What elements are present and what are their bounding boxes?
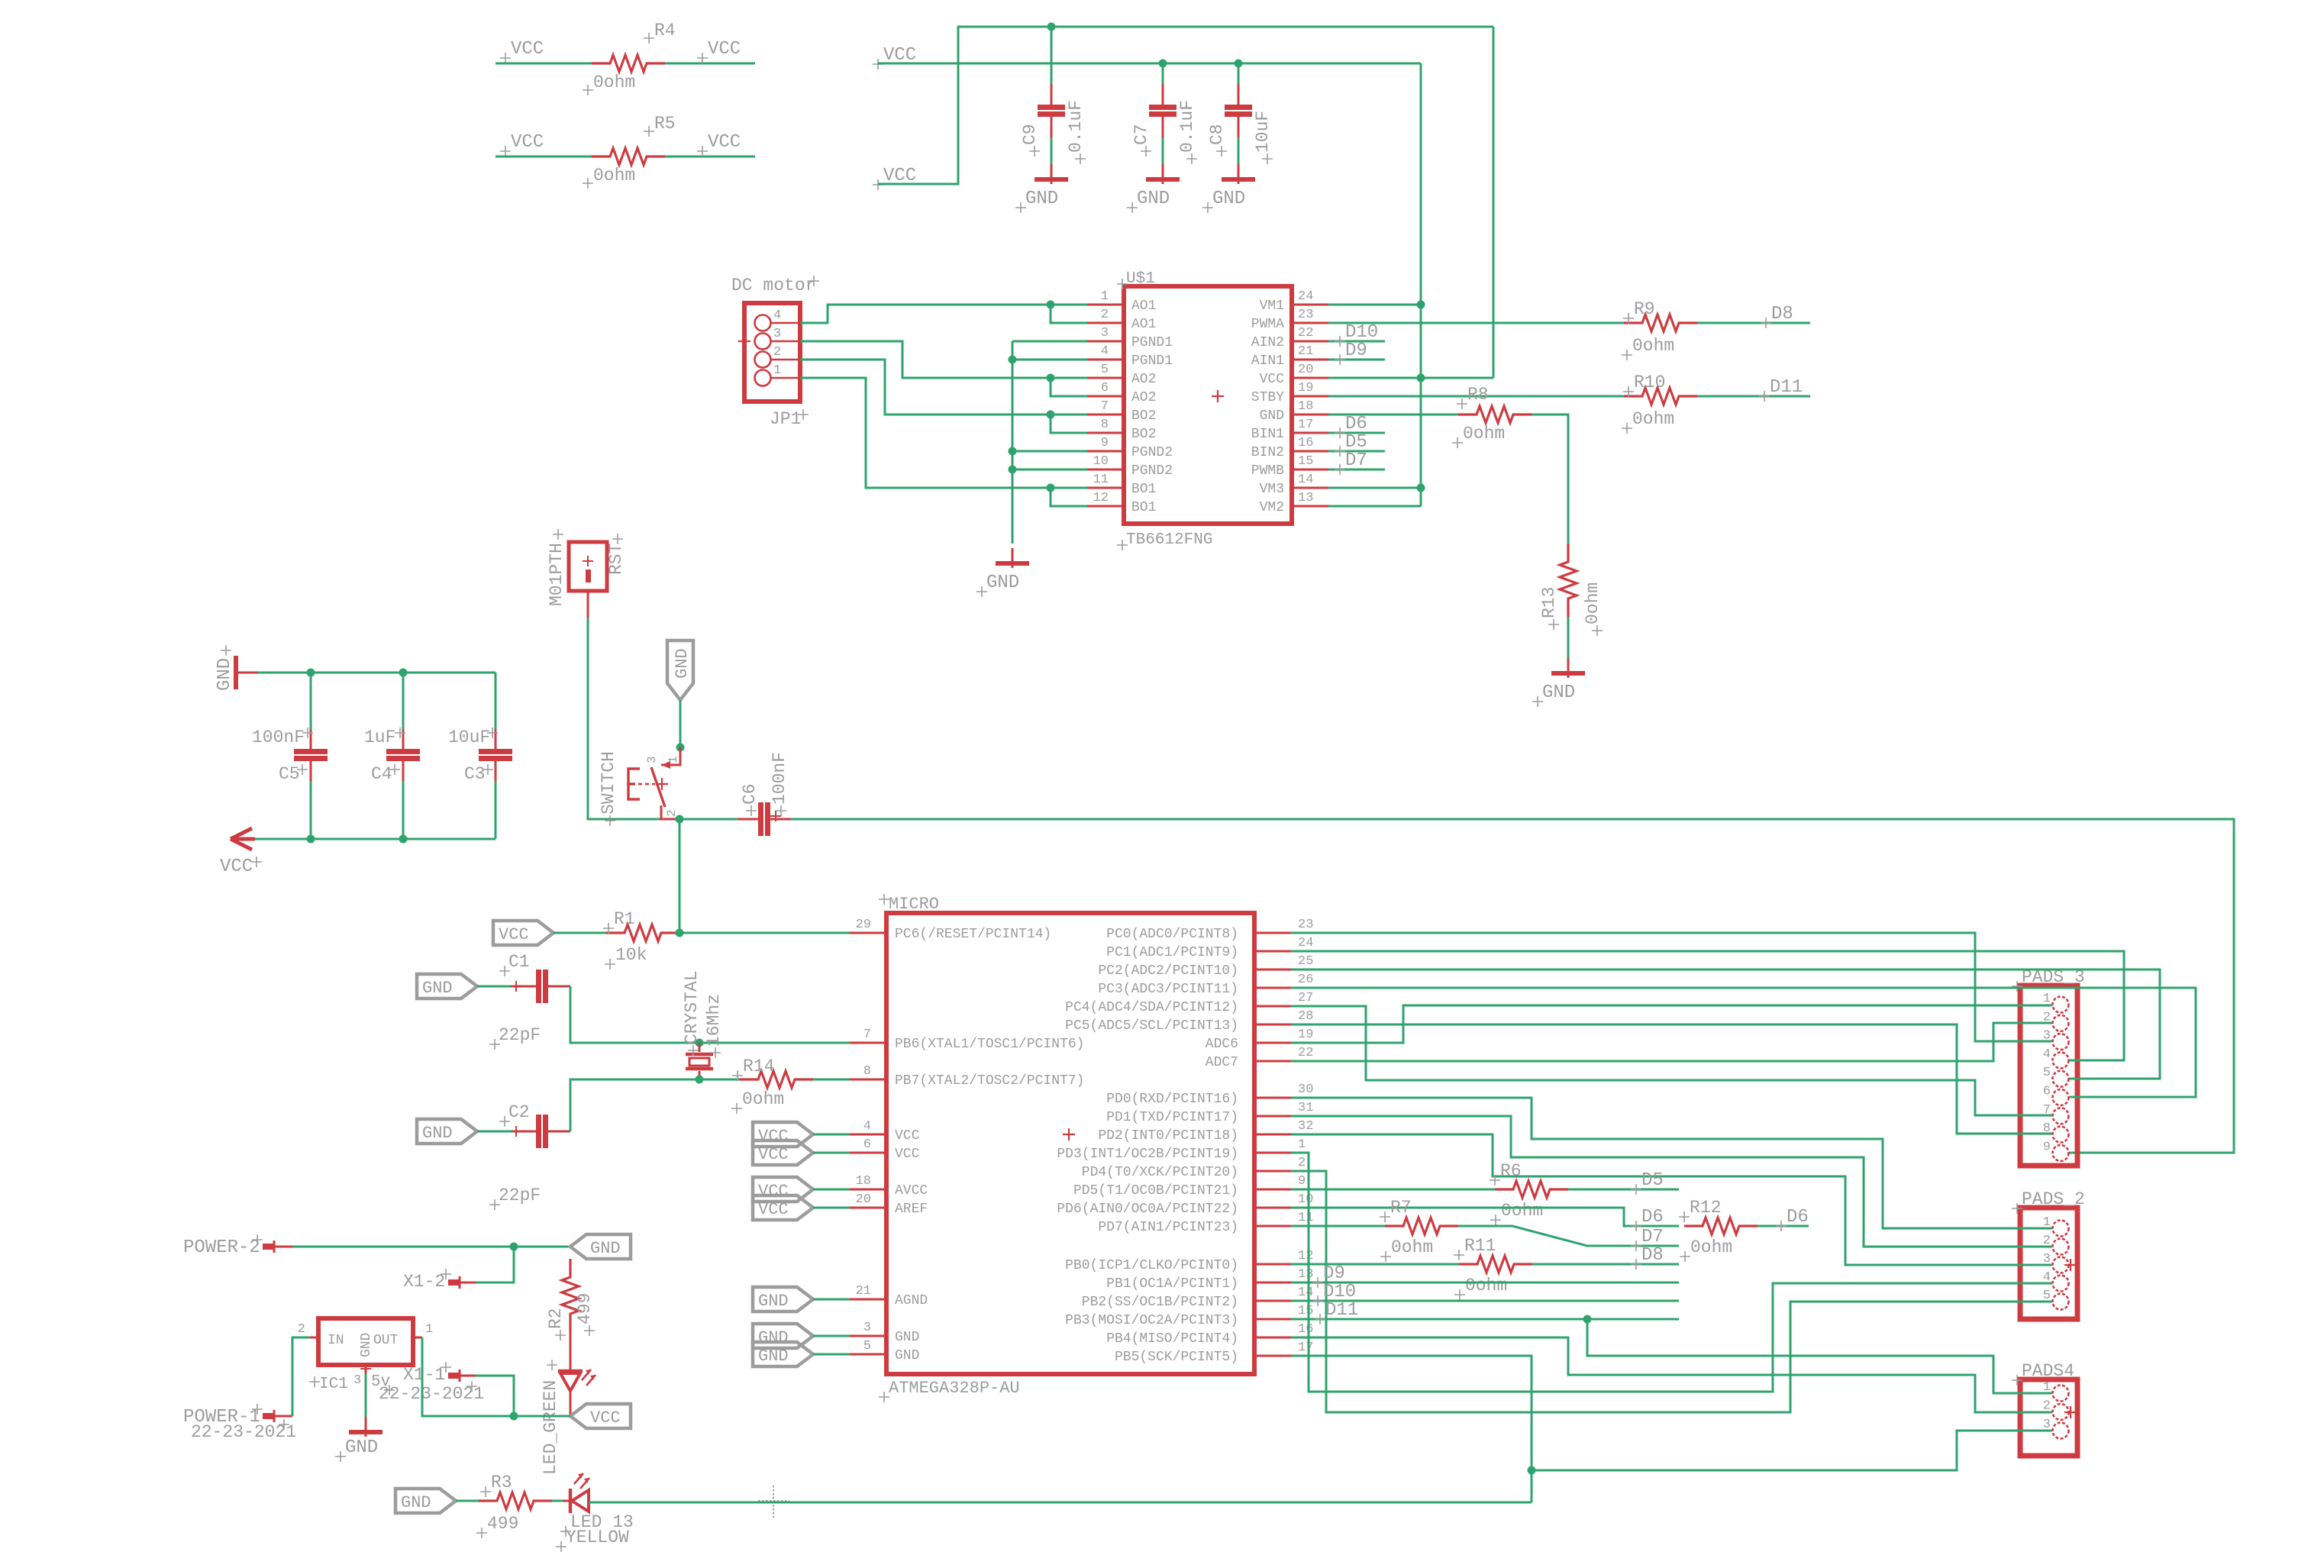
PADS4 pad 2 [2053, 1404, 2069, 1420]
wire pin23 to PADS_3 pad3 [1291, 933, 2052, 1041]
svg-text:10uF: 10uF [1253, 111, 1273, 153]
supply flag GND pin5 [753, 1342, 813, 1366]
PADS_2 pad 4 [2053, 1276, 2069, 1292]
svg-text:23: 23 [1298, 308, 1313, 322]
wire branch to U$1 pin12 [1051, 488, 1087, 506]
svg-text:1: 1 [1298, 1137, 1306, 1152]
svg-text:PB4(MISO/PCINT4): PB4(MISO/PCINT4) [1106, 1331, 1238, 1347]
connector JP1 (DC motor) body [744, 303, 800, 402]
wire branch to U$1 pin6 [1051, 378, 1087, 396]
X1-2 pin stub [448, 1279, 459, 1286]
svg-text:GND: GND [758, 1347, 789, 1366]
svg-text:IC1: IC1 [319, 1376, 348, 1393]
svg-text:YELLOW: YELLOW [566, 1528, 629, 1547]
svg-text:LED_GREEN: LED_GREEN [541, 1380, 560, 1475]
switch origin cross [656, 778, 668, 790]
IC1 pin 1 lead [413, 1337, 422, 1339]
wire POWER-2 to GND flag [292, 1246, 570, 1248]
JP1 pin 1 stub [771, 377, 801, 379]
junction PGND pin4 [1009, 356, 1017, 364]
resistor R8 [1458, 406, 1532, 423]
MICRO pin 32 lead [1254, 1134, 1291, 1136]
MICRO pin 28 lead [1254, 1024, 1291, 1026]
svg-text:14: 14 [1298, 473, 1313, 487]
PADS_3 pad 5 [2053, 1071, 2069, 1087]
svg-text:3: 3 [353, 1373, 361, 1388]
C6 origin cross [770, 811, 781, 821]
svg-text:TB6612FNG: TB6612FNG [1126, 531, 1212, 549]
ground symbol below C7 [1162, 164, 1164, 184]
svg-text:AREF: AREF [895, 1202, 928, 1217]
svg-text:0ohm: 0ohm [593, 73, 635, 92]
junction R1 output [676, 929, 684, 937]
svg-text:PB0(ICP1/CLKO/PCINT0): PB0(ICP1/CLKO/PCINT0) [1065, 1258, 1238, 1273]
svg-text:C5: C5 [279, 764, 300, 784]
switch pin 2 lead [661, 805, 678, 819]
svg-text:29: 29 [856, 918, 871, 932]
LED_GREEN emission arrows [582, 1370, 596, 1386]
svg-text:22pF: 22pF [499, 1025, 541, 1045]
svg-text:X1-1: X1-1 [403, 1365, 445, 1385]
LED LED_GREEN [558, 1370, 583, 1373]
wire VCC rail down right side x=1861 [1420, 63, 1422, 506]
PADS_3 pad 6 [2053, 1089, 2069, 1105]
svg-text:PADS4: PADS4 [2022, 1361, 2074, 1381]
svg-text:6: 6 [1101, 381, 1109, 395]
svg-text:R5: R5 [654, 114, 676, 134]
JP1 pad 4 [755, 315, 771, 331]
svg-text:GND: GND [422, 979, 453, 998]
junction C4 bottom [399, 835, 408, 844]
svg-text:PB2(SS/OC1B/PCINT2): PB2(SS/OC1B/PCINT2) [1082, 1295, 1238, 1310]
capacitor C3 [495, 729, 497, 749]
svg-text:24: 24 [1298, 936, 1313, 950]
svg-text:BO2: BO2 [1131, 408, 1156, 424]
svg-text:R1: R1 [614, 909, 635, 929]
supply flag GND above switch [667, 640, 693, 700]
wire U$1 pin21 AIN1 stub D9 [1328, 359, 1385, 361]
U$1 pin 8 lead [1087, 432, 1124, 434]
svg-text:PGND2: PGND2 [1131, 445, 1173, 460]
wire R6 to D5 [1568, 1189, 1679, 1191]
IC1 pin 2 lead [310, 1337, 318, 1339]
svg-text:GND: GND [359, 1333, 374, 1357]
wire U$1 pin14 VM3 [1328, 487, 1421, 489]
wire POWER-1 to IC1 IN [292, 1337, 310, 1416]
supply flag VCC pin6 [753, 1141, 813, 1165]
U$1 pin 9 lead [1087, 450, 1124, 453]
MICRO pin 3 lead [850, 1335, 886, 1337]
svg-text:100nF: 100nF [252, 728, 305, 747]
svg-text:VCC: VCC [758, 1200, 789, 1219]
svg-text:2: 2 [665, 809, 679, 817]
PADS_2 pad 3 [2053, 1257, 2069, 1273]
svg-text:GND: GND [215, 658, 235, 691]
svg-text:4: 4 [773, 308, 781, 323]
svg-text:D6: D6 [1641, 1207, 1664, 1228]
svg-text:PD4(T0/XCK/PCINT20): PD4(T0/XCK/PCINT20) [1082, 1165, 1238, 1180]
svg-text:AGND: AGND [895, 1293, 928, 1308]
wire U$1 pin24 VM1 to VCC rail [1328, 304, 1421, 306]
MICRO pin 24 lead [1254, 950, 1291, 953]
svg-text:23: 23 [1298, 918, 1313, 932]
svg-text:AO1: AO1 [1131, 317, 1156, 332]
svg-text:BO1: BO1 [1131, 500, 1156, 515]
MICRO pin 6 lead [850, 1152, 886, 1154]
svg-text:C6: C6 [740, 783, 760, 805]
svg-text:0.1uF: 0.1uF [1066, 100, 1086, 153]
VCC arrow symbol [231, 828, 255, 850]
svg-text:R7: R7 [1390, 1198, 1412, 1218]
svg-text:0ohm: 0ohm [593, 166, 635, 186]
wire net VCC to R4 [495, 63, 592, 65]
wire pin26 to PADS_3 pad6 [1291, 988, 2196, 1097]
svg-text:GND: GND [1542, 682, 1575, 703]
wire PGND to pin9 [1012, 450, 1087, 453]
svg-text:PWMB: PWMB [1251, 463, 1284, 479]
svg-text:0ohm: 0ohm [1465, 1276, 1507, 1295]
PADS_2 pad 1 [2053, 1221, 2069, 1237]
capacitor C6 [738, 818, 758, 821]
wire C7 top [1162, 63, 1164, 84]
MICRO pin 18 lead [850, 1189, 886, 1191]
wire R2 to LED [570, 1332, 572, 1371]
svg-text:PB1(OC1A/PCINT1): PB1(OC1A/PCINT1) [1106, 1276, 1238, 1292]
svg-text:ATMEGA328P-AU: ATMEGA328P-AU [889, 1379, 1020, 1398]
svg-text:7: 7 [863, 1028, 871, 1042]
svg-text:VCC: VCC [511, 39, 544, 60]
svg-text:VCC: VCC [708, 39, 741, 60]
U$1 pin 11 lead [1087, 487, 1124, 489]
svg-text:PC2(ADC2/PCINT10): PC2(ADC2/PCINT10) [1098, 963, 1238, 979]
svg-text:25: 25 [1298, 954, 1313, 969]
PADS_3 pad 7 [2053, 1108, 2069, 1124]
svg-text:BO2: BO2 [1131, 427, 1156, 442]
IC MICRO ATMEGA328P-AU body [886, 913, 1254, 1374]
PADS4 pad 1 [2053, 1386, 2069, 1402]
wire C6 to PADS_3 pad9 (long reset net) [791, 819, 2234, 1153]
wire branch to U$1 pin8 [1051, 415, 1087, 433]
svg-text:6: 6 [863, 1137, 871, 1152]
svg-text:10: 10 [1298, 1192, 1313, 1207]
switch lever [651, 767, 665, 807]
LED LED_13 [563, 1500, 569, 1502]
svg-text:6: 6 [2043, 1085, 2051, 1099]
svg-text:PADS_2: PADS_2 [2022, 1189, 2085, 1209]
wire C1 to XTAL1 row [570, 986, 850, 1043]
svg-text:PB5(SCK/PCINT5): PB5(SCK/PCINT5) [1115, 1350, 1238, 1365]
junction C5 bottom [307, 835, 315, 844]
U$1 pin 3 lead [1087, 340, 1124, 343]
svg-text:C2: C2 [508, 1102, 530, 1122]
svg-text:22-23-2021: 22-23-2021 [379, 1384, 484, 1404]
svg-text:PWMA: PWMA [1251, 317, 1284, 332]
wire U$1 pin20 VCC [1328, 377, 1493, 379]
svg-text:22-23-2021: 22-23-2021 [191, 1422, 296, 1442]
MICRO pin 19 lead [1254, 1042, 1291, 1044]
ground symbol below R13 [1567, 658, 1570, 678]
MICRO pin 15 lead [1254, 1318, 1291, 1321]
svg-text:D6: D6 [1345, 414, 1367, 434]
wire pin10 to D6 row [1291, 1208, 1679, 1226]
PADS_3 pad 2 [2053, 1015, 2069, 1031]
C1 origin cross [511, 981, 521, 992]
svg-text:9: 9 [1298, 1174, 1306, 1189]
svg-text:19: 19 [1298, 381, 1313, 395]
svg-text:AO1: AO1 [1131, 298, 1156, 314]
wire crystal row to R14 [699, 1079, 740, 1081]
svg-text:VCC: VCC [895, 1128, 920, 1144]
svg-text:PB3(MOSI/OC2A/PCINT3): PB3(MOSI/OC2A/PCINT3) [1065, 1313, 1238, 1328]
svg-text:D11: D11 [1325, 1300, 1358, 1321]
JP1 pin 2 stub [771, 359, 801, 361]
svg-text:PD0(RXD/PCINT16): PD0(RXD/PCINT16) [1106, 1092, 1238, 1107]
svg-text:PC0(ADC0/PCINT8): PC0(ADC0/PCINT8) [1106, 927, 1238, 942]
svg-text:0.1uF: 0.1uF [1177, 100, 1197, 153]
U$1 pin 21 lead [1292, 359, 1328, 361]
MICRO pin 27 lead [1254, 1005, 1291, 1008]
PADS_3 pad 4 [2053, 1052, 2069, 1068]
supply flag GND pin21 AGND [753, 1287, 813, 1312]
svg-text:2: 2 [773, 345, 781, 360]
svg-text:31: 31 [1298, 1101, 1313, 1115]
MICRO pin 1 lead [1254, 1152, 1291, 1154]
connector PADS4 body [2020, 1379, 2077, 1456]
junction at C9 top rail [1047, 23, 1056, 31]
wire pin31 to PADS_2 pad2 [1291, 1116, 2052, 1247]
svg-text:3: 3 [645, 756, 659, 763]
svg-text:R14: R14 [743, 1057, 774, 1076]
wire JP1-3 to U$1 AO2 pins [800, 341, 1087, 378]
wire PGND to pin3 [1012, 340, 1087, 343]
svg-text:C7: C7 [1131, 124, 1151, 145]
wire GND to pin21 [813, 1299, 850, 1301]
svg-text:VCC: VCC [590, 1408, 621, 1428]
U$1 pin 5 lead [1087, 377, 1124, 379]
svg-text:1uF: 1uF [364, 728, 395, 747]
junction VCC row [510, 1412, 518, 1421]
wire pin11 to R7 [1291, 1225, 1385, 1228]
svg-text:AO2: AO2 [1131, 390, 1156, 405]
wire C8 bottom to GND [1238, 137, 1240, 164]
svg-text:AIN2: AIN2 [1251, 335, 1284, 350]
wire pin1 to PADS_2 pad4 [1291, 1153, 2052, 1392]
svg-text:7: 7 [1101, 399, 1109, 414]
PADS_3 pad 9 [2053, 1145, 2069, 1161]
wire R1 to MICRO pin29 [679, 932, 850, 934]
POWER-1 pin stub [263, 1413, 273, 1419]
svg-text:3: 3 [863, 1321, 871, 1335]
MICRO pin 2 lead [1254, 1170, 1291, 1173]
crystal Q1 16MHz [699, 1043, 701, 1052]
svg-text:1: 1 [667, 756, 680, 763]
wire PGND bus vertical [1012, 341, 1014, 544]
LED_13 emission arrows [574, 1473, 589, 1489]
svg-text:0ohm: 0ohm [1632, 409, 1674, 429]
MICRO pin 9 lead [1254, 1189, 1291, 1191]
MICRO pin 12 lead [1254, 1263, 1291, 1266]
wire RST net down and to reset row [588, 618, 679, 819]
svg-text:VCC: VCC [758, 1127, 789, 1146]
wire U$1 pin18 GND to R8 [1328, 414, 1458, 416]
svg-text:PC3(ADC3/PCINT11): PC3(ADC3/PCINT11) [1098, 982, 1238, 997]
svg-text:2: 2 [298, 1322, 305, 1337]
svg-text:R13: R13 [1539, 587, 1559, 618]
wire JP1-1 to U$1 BO1 pins [800, 378, 1087, 488]
junction pin17 net [1528, 1466, 1536, 1475]
supply flag GND pin3 [753, 1324, 813, 1348]
wire R3 to LED_13 [552, 1500, 563, 1502]
svg-text:11: 11 [1093, 473, 1109, 487]
wire VCC to pin20 [813, 1207, 850, 1209]
svg-text:19: 19 [1298, 1028, 1313, 1042]
svg-text:U$1: U$1 [1126, 270, 1155, 288]
JP1 pad 1 [755, 370, 771, 386]
svg-text:BO1: BO1 [1131, 482, 1156, 497]
resistor R7 [1385, 1218, 1458, 1234]
resistor R5 [592, 148, 665, 165]
U$1 pin 24 lead [1292, 304, 1328, 306]
supply flag GND at R2 top [570, 1234, 631, 1259]
svg-text:10k: 10k [615, 945, 647, 965]
wire VCC to pin6 [813, 1152, 850, 1154]
svg-text:PD7(AIN1/PCINT23): PD7(AIN1/PCINT23) [1098, 1220, 1238, 1235]
svg-text:R4: R4 [654, 21, 676, 40]
wire R10 to D11 [1697, 395, 1810, 398]
svg-text:PD3(INT1/OC2B/PCINT19): PD3(INT1/OC2B/PCINT19) [1057, 1147, 1238, 1162]
svg-text:STBY: STBY [1251, 390, 1284, 405]
svg-text:16: 16 [1298, 1322, 1313, 1337]
wire GND to pin5 [813, 1353, 850, 1356]
wire RST pin stub [587, 591, 589, 618]
svg-text:VM2: VM2 [1260, 500, 1284, 515]
junction AO2 [1047, 374, 1055, 382]
wire U$1 pin22 AIN2 stub D10 [1328, 340, 1385, 343]
svg-text:R8: R8 [1467, 385, 1489, 405]
supply flag GND to C2 [417, 1119, 477, 1144]
wire VCC to pin18 [813, 1189, 850, 1191]
svg-text:PC5(ADC5/SCL/PCINT13): PC5(ADC5/SCL/PCINT13) [1065, 1018, 1238, 1034]
svg-text:M01PTH: M01PTH [547, 543, 566, 606]
U$1 pin 23 lead [1292, 322, 1328, 324]
junction crystal bottom [696, 1076, 704, 1084]
svg-text:D10: D10 [1323, 1282, 1356, 1302]
wire net VCC to R5 [495, 156, 592, 158]
svg-text:PD6(AIN0/OC0A/PCINT22): PD6(AIN0/OC0A/PCINT22) [1057, 1202, 1238, 1217]
supply flag VCC pin20 AREF [753, 1195, 813, 1220]
wire D11 branch to PADS4 pad1 [1587, 1319, 2052, 1393]
junction VM1 [1417, 301, 1425, 309]
connector PADS_2 body [2020, 1208, 2077, 1319]
voltage regulator IC1 body [318, 1318, 413, 1365]
wire pin13 stub D9 [1291, 1282, 1679, 1284]
resistor R3 [479, 1492, 552, 1509]
svg-text:MICRO: MICRO [889, 895, 939, 914]
wire C2 to XTAL2 row [570, 1079, 699, 1131]
svg-text:GND: GND [758, 1328, 789, 1347]
svg-text:D5: D5 [1641, 1170, 1664, 1191]
U$1 pin 12 lead [1087, 505, 1124, 508]
svg-text:PD2(INT0/PCINT18): PD2(INT0/PCINT18) [1098, 1128, 1238, 1144]
M01PTH pin mark [586, 569, 591, 582]
svg-text:D8: D8 [1771, 304, 1793, 324]
svg-text:C1: C1 [508, 952, 530, 972]
PADS_3 pad 3 [2053, 1034, 2069, 1050]
svg-text:32: 32 [1298, 1119, 1313, 1134]
svg-text:R12: R12 [1690, 1198, 1721, 1218]
svg-text:PGND1: PGND1 [1131, 353, 1173, 369]
svg-text:10: 10 [1093, 454, 1109, 469]
switch pin 1 lead [661, 747, 680, 765]
svg-text:GND: GND [1137, 189, 1170, 209]
origin cross of U$1 [1212, 390, 1224, 402]
switch body bracket [628, 769, 640, 799]
PADS_3 pad 1 [2053, 997, 2069, 1013]
svg-text:0ohm: 0ohm [1632, 336, 1674, 356]
wire GND rail to caps [258, 672, 495, 674]
supply flag VCC to R1 [493, 921, 554, 945]
MICRO pin 8 lead [850, 1079, 886, 1081]
wire GND flag to C2 [477, 1131, 514, 1133]
supply flag VCC pin18 AVCC [753, 1177, 813, 1202]
svg-text:14: 14 [1298, 1286, 1313, 1300]
resistor R13 [1560, 544, 1577, 617]
junction switch pin1 [676, 744, 685, 752]
wire pin14 stub D10 [1291, 1300, 1679, 1302]
svg-text:21: 21 [856, 1284, 871, 1299]
svg-text:VM3: VM3 [1260, 482, 1284, 497]
svg-text:0ohm: 0ohm [1583, 582, 1603, 624]
U$1 pin 6 lead [1087, 395, 1124, 398]
resistor R1 [606, 924, 679, 941]
wire pin24 to PADS_3 pad4 [1291, 951, 2124, 1060]
wire U$1 pin19 STBY to R10 [1328, 395, 1624, 398]
svg-text:PB7(XTAL2/TOSC2/PCINT7): PB7(XTAL2/TOSC2/PCINT7) [895, 1073, 1084, 1089]
svg-text:21: 21 [1298, 344, 1313, 359]
svg-text:BIN1: BIN1 [1251, 427, 1284, 442]
svg-text:AIN1: AIN1 [1251, 353, 1284, 369]
wire reset row to C6 [679, 818, 738, 821]
svg-text:11: 11 [1298, 1211, 1313, 1225]
svg-text:8: 8 [863, 1064, 871, 1079]
U$1 pin 14 lead [1292, 487, 1328, 489]
junction BO2 [1047, 411, 1055, 419]
wire R13 to GND [1567, 617, 1570, 658]
IC1 pin 3 lead [365, 1365, 367, 1374]
wire C4 bottom [402, 781, 405, 839]
svg-text:2: 2 [1101, 308, 1109, 322]
svg-text:GND: GND [986, 573, 1019, 593]
svg-text:10uF: 10uF [448, 728, 490, 747]
wire R4 to VCC [665, 63, 755, 65]
svg-text:27: 27 [1298, 991, 1313, 1005]
wire VCC label2 to corner [878, 27, 1493, 184]
wire C3 top via right corner [495, 673, 497, 729]
wire C4 top [402, 673, 405, 729]
junction C5 top [307, 669, 315, 677]
svg-text:0ohm: 0ohm [1501, 1201, 1543, 1221]
wire R8 to R13 [1532, 415, 1568, 544]
MICRO pin 20 lead [850, 1207, 886, 1209]
svg-text:13: 13 [1298, 1267, 1313, 1282]
PADS_3 pad 8 [2053, 1127, 2069, 1143]
wire R14 to MICRO pin8 [813, 1079, 850, 1081]
svg-text:C4: C4 [371, 764, 392, 784]
capacitor C8 [1238, 84, 1240, 105]
svg-text:ADC6: ADC6 [1206, 1037, 1238, 1052]
junction PGND pin9 [1009, 447, 1017, 456]
ground symbol below U$1 [1012, 548, 1014, 568]
